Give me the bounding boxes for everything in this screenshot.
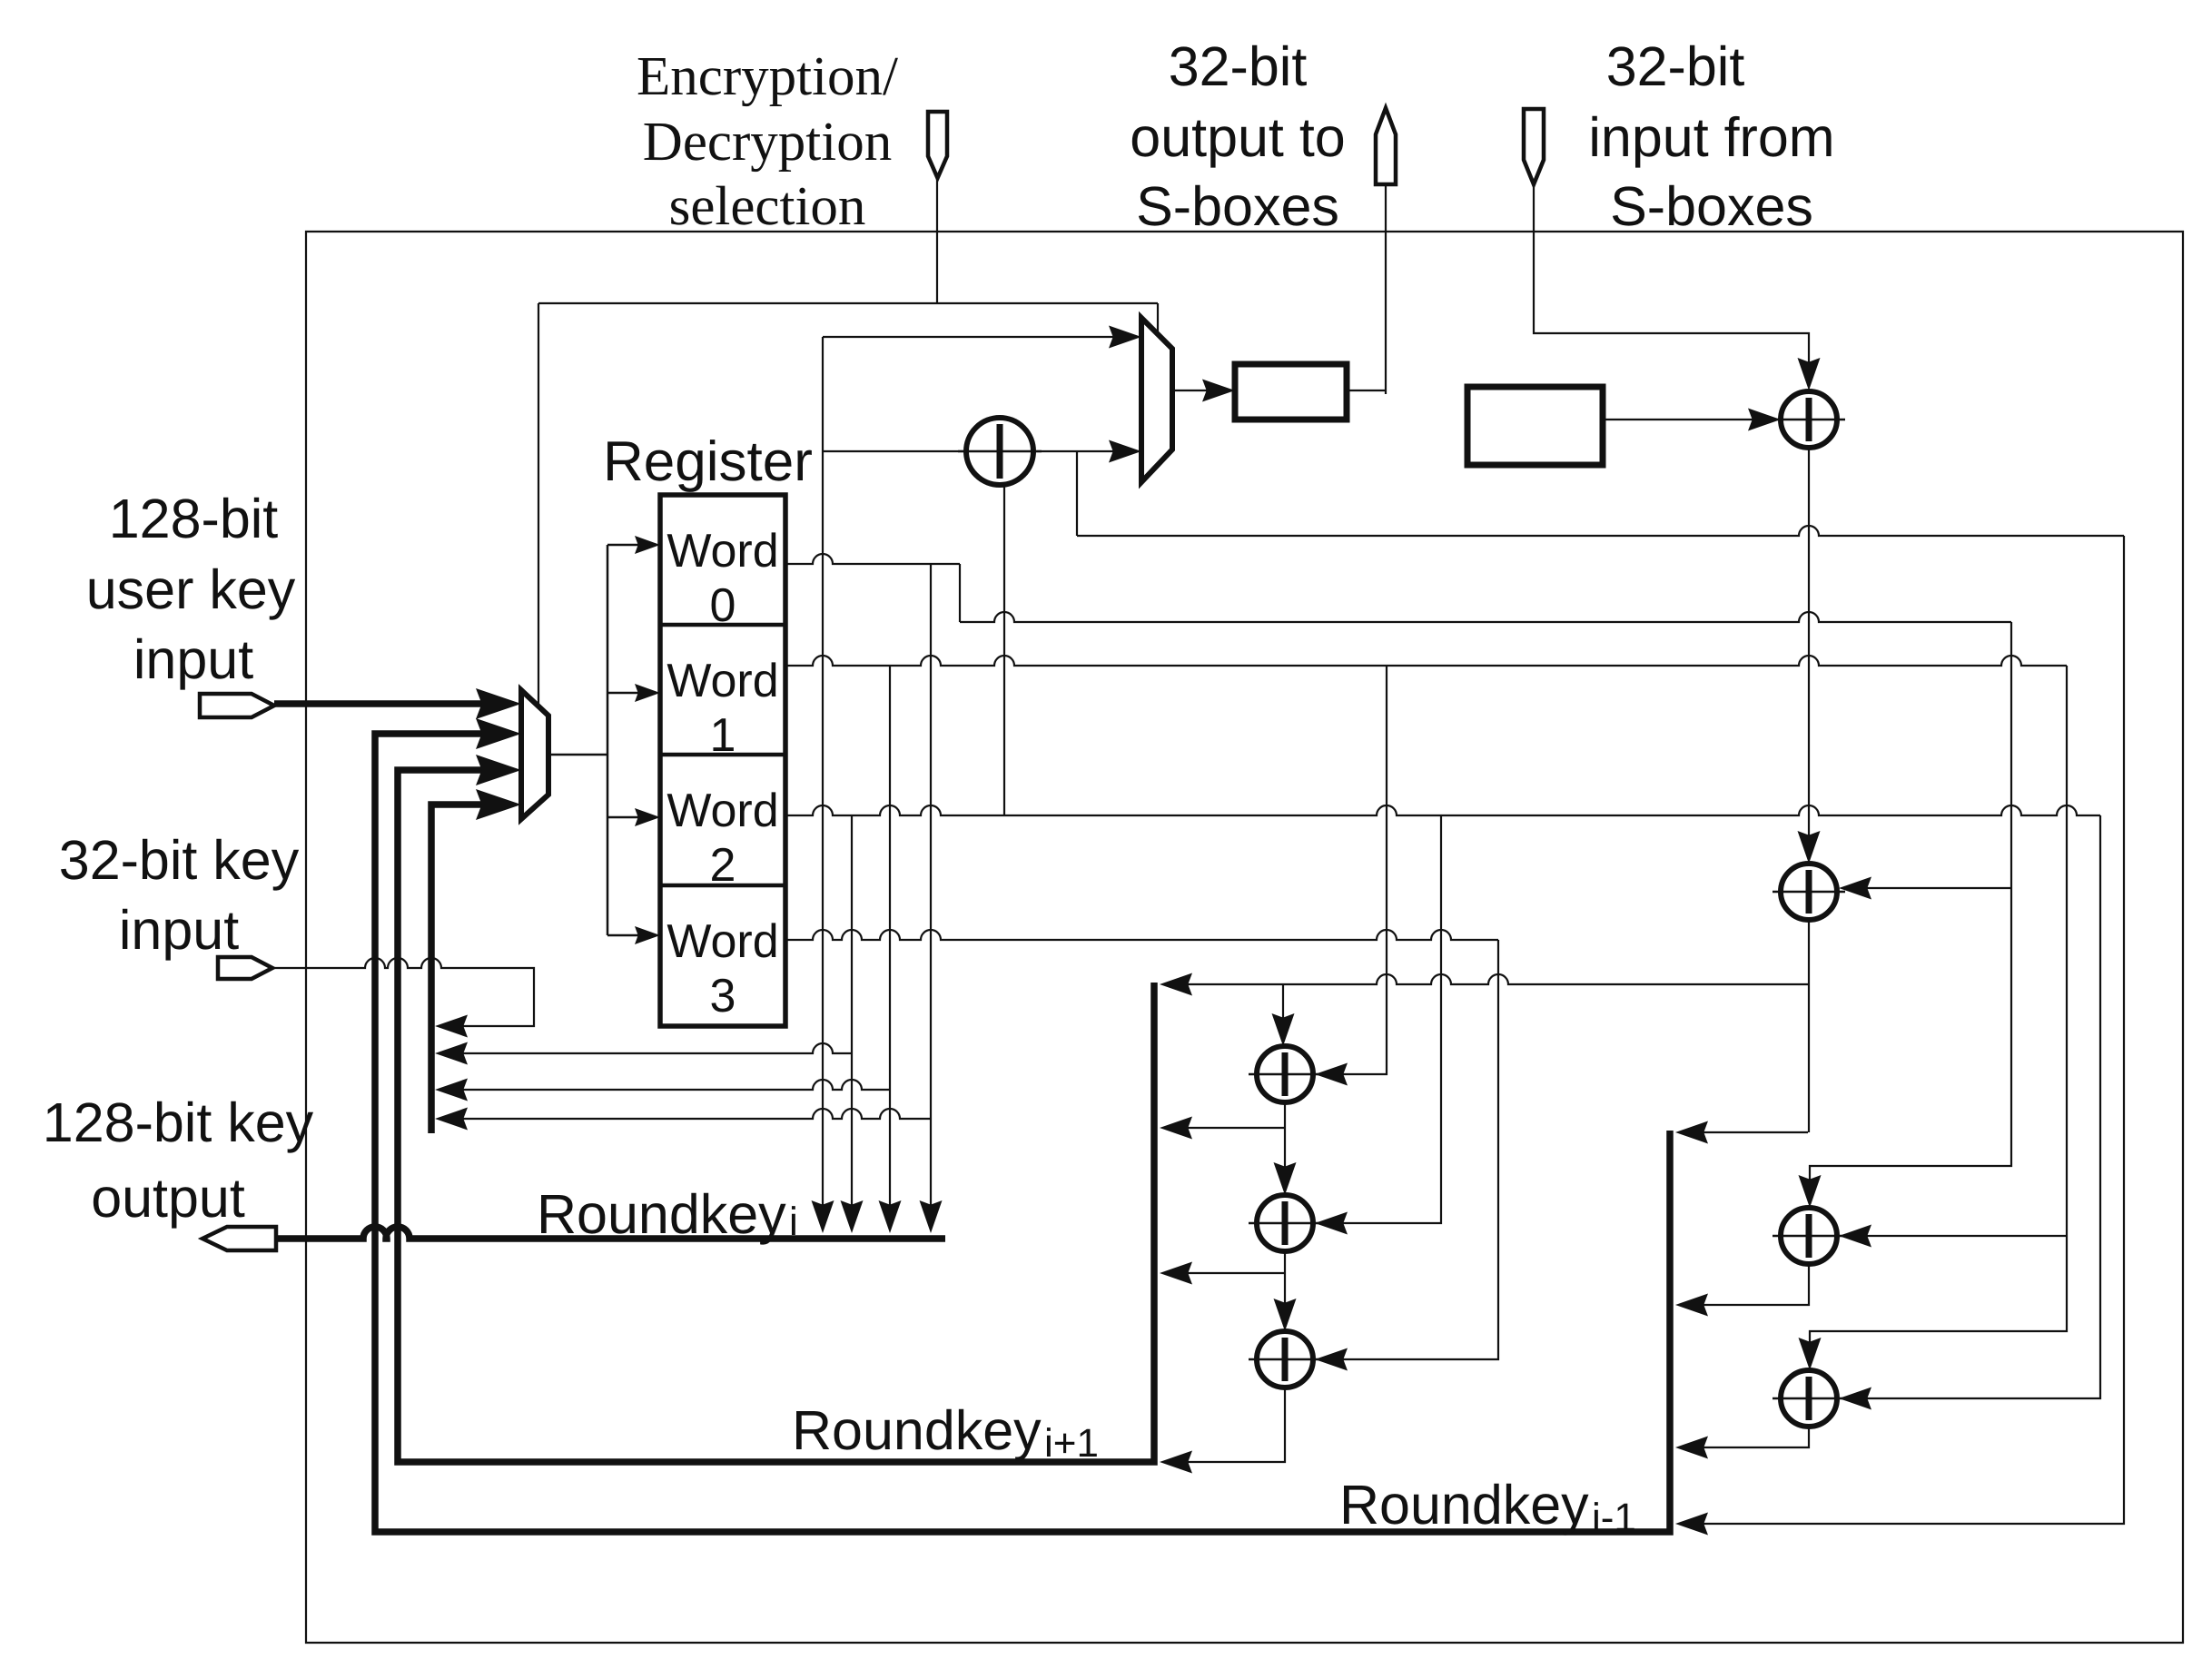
wire X3 tap y1084 line — [1167, 974, 1808, 984]
wire X1 bottom link to Word2 line — [1003, 485, 1005, 815]
svg-text:Word: Word — [667, 525, 778, 578]
svg-text:128-bit: 128-bit — [109, 488, 279, 549]
wire tap y1232 — [442, 1109, 931, 1119]
wire X3 right input — [1846, 887, 2011, 889]
wire arrow tap1160 into bus — [435, 1042, 468, 1065]
svg-text:Word: Word — [667, 915, 778, 968]
register divider 2 — [660, 753, 785, 757]
wire U2 output — [548, 754, 607, 756]
svg-text:32-bit key: 32-bit key — [59, 829, 300, 891]
xor X2 — [1773, 391, 1845, 448]
wire arrow into X5m top — [1272, 1013, 1295, 1046]
wire arrow into X5m right — [1315, 1063, 1348, 1086]
pin KEYOUT (128-bit key output) — [202, 1227, 276, 1250]
wire arrow x938 to Roundkey_i — [841, 1200, 864, 1233]
wire arrow into X4 top — [1799, 1175, 1822, 1208]
wire Word0 long run y685 — [960, 612, 2011, 622]
wire arrow y1084 into bus i+1 — [1160, 973, 1192, 996]
pin SBOX-OUT (32-bit output to S-boxes) — [1376, 108, 1396, 184]
xor X4 — [1773, 1208, 1845, 1264]
wire x938 drop — [851, 815, 853, 1228]
label Encryption/Decryption selection — [637, 46, 898, 237]
svg-text:3: 3 — [710, 970, 736, 1022]
svg-text:Word: Word — [667, 785, 778, 837]
wire X3 tap left y1247 — [1683, 1131, 1808, 1133]
wire arrow U1-in2 — [1109, 440, 1141, 463]
wire register feed vertical — [607, 545, 609, 935]
wire arrow into X2 left — [1748, 409, 1781, 431]
wire B1 out to sbox-out pin — [1347, 390, 1386, 391]
svg-text:S-boxes: S-boxes — [1610, 175, 1813, 237]
svg-text:Encryption/: Encryption/ — [637, 46, 898, 107]
svg-text:selection: selection — [669, 176, 866, 237]
register divider 3 — [660, 884, 785, 888]
svg-text:output to: output to — [1130, 106, 1345, 168]
wire arrow U1-in1 — [1109, 326, 1141, 349]
xor X5m — [1249, 1046, 1321, 1102]
svg-text:input: input — [133, 628, 253, 690]
register box — [660, 495, 785, 1026]
wire x1025 drop — [930, 564, 932, 1228]
svg-text:128-bit key: 128-bit key — [43, 1091, 314, 1153]
wire ED select drop to mux U2 — [538, 303, 539, 707]
wire arrow tap1200 into bus — [435, 1079, 468, 1101]
wire x2339 drop to Roundkey_i-1 — [1683, 536, 2124, 1524]
wire tap y1200 — [442, 1080, 890, 1090]
wire arrow y1242 into bus i+1 — [1160, 1117, 1192, 1140]
wire arrow x980 to Roundkey_i — [879, 1200, 902, 1233]
xor X6 — [1249, 1195, 1321, 1251]
svg-text:32-bit: 32-bit — [1169, 35, 1308, 97]
pin ED (Encryption/Decryption selection) — [928, 112, 947, 178]
wire Word2 output run y898 — [785, 805, 2100, 815]
wire arrow U2-a3 — [476, 755, 521, 785]
wire feed Word0 — [607, 544, 638, 547]
wire arrow Word2 in — [635, 808, 660, 826]
mux U1 — [1141, 318, 1172, 482]
wire X1 left input — [823, 450, 967, 452]
wire node x906 vertical — [822, 337, 824, 1228]
register divider 1 — [660, 623, 785, 627]
wire arrow into X7 right — [1315, 1348, 1348, 1371]
wire ED select rail — [538, 302, 1158, 304]
label 128-bit key output — [43, 1091, 314, 1229]
wire arrow tap1232 into bus — [435, 1108, 468, 1131]
wire X4 output — [1683, 1264, 1809, 1305]
svg-text:Word: Word — [667, 655, 778, 707]
svg-text:Roundkey: Roundkey — [1339, 1474, 1589, 1536]
svg-text:output: output — [91, 1167, 245, 1229]
wire Word0 output run — [785, 554, 960, 564]
wire feed Word1 — [607, 692, 638, 695]
svg-text:Register: Register — [603, 430, 813, 493]
wire X3 output drop — [1808, 920, 1810, 1132]
pin USERKEY (128-bit user key input) — [200, 694, 274, 717]
label Roundkey i — [537, 1183, 798, 1245]
wire X6 tap y1402 — [1167, 1272, 1285, 1274]
wire arrow x1025 to Roundkey_i — [920, 1200, 943, 1233]
wire arrow x2339 into bus i-1 — [1675, 1513, 1708, 1536]
label Word 1 — [667, 655, 778, 762]
wire X1 out drop x1186 — [1076, 451, 1078, 536]
wire X7 output — [1167, 1388, 1285, 1462]
wire Word3 output run y1035 — [785, 930, 1498, 940]
wire arrow X5r-out into bus i-1 — [1675, 1437, 1708, 1459]
mux U2 — [521, 690, 548, 819]
wire X1 output to U1 — [1032, 450, 1132, 452]
wire X6 output — [1284, 1251, 1286, 1326]
svg-text:Decryption: Decryption — [643, 112, 892, 173]
xor X5r — [1773, 1370, 1845, 1427]
wire 32-bit key input run — [272, 958, 534, 1026]
label Register — [603, 430, 813, 493]
svg-text:i: i — [789, 1200, 798, 1244]
wire arrow U2-a1 — [476, 688, 521, 719]
box B2 — [1467, 387, 1603, 465]
wire arrow X7-out into bus i+1 — [1160, 1451, 1192, 1474]
label Word 0 — [667, 525, 778, 632]
wire X5r output — [1683, 1427, 1809, 1447]
wire B2 output — [1603, 419, 1773, 420]
bus Roundkey_i-1 loop (thick) — [375, 734, 1670, 1532]
wire X5m tap y1242 — [1167, 1127, 1285, 1129]
bus key assembly (thick) — [431, 805, 507, 1133]
label 32-bit output to S-boxes — [1130, 35, 1345, 237]
svg-text:Roundkey: Roundkey — [537, 1183, 786, 1245]
svg-text:input from: input from — [1588, 106, 1834, 168]
wire X5m right input — [1322, 666, 1387, 1074]
label Word 3 — [667, 915, 778, 1022]
xor X7 — [1249, 1331, 1321, 1388]
wire feed Word3 — [607, 934, 638, 937]
wire arrow into X6 right — [1315, 1212, 1348, 1235]
wire Word0 drop x1057 — [959, 564, 961, 622]
wire arrow into X7 top — [1274, 1299, 1297, 1331]
bus Roundkey_i (thick) — [275, 1227, 945, 1239]
svg-text:i-1: i-1 — [1592, 1496, 1636, 1540]
svg-text:1: 1 — [710, 709, 736, 762]
wire X4 right input — [1846, 1235, 2067, 1237]
label 32-bit key input — [59, 829, 300, 961]
wire arrow into X3 right — [1839, 877, 1871, 900]
svg-text:user key: user key — [86, 558, 296, 620]
wire arrow into X5r right — [1839, 1388, 1871, 1410]
wire arrow Word3 in — [635, 926, 660, 944]
label Roundkey i-1 — [1339, 1474, 1636, 1540]
wire X6 right input — [1322, 815, 1441, 1223]
xor X1 — [958, 418, 1042, 485]
wire ED pin stem — [936, 178, 938, 303]
wire arrow keyin into bus — [435, 1015, 468, 1038]
svg-text:32-bit: 32-bit — [1606, 35, 1745, 97]
wire X1-out long run y590 — [1077, 526, 2124, 536]
wire arrow into X4 right — [1839, 1225, 1871, 1248]
wire arrow into X6 top — [1274, 1162, 1297, 1195]
wire U1 output — [1172, 390, 1226, 391]
wire arrow into X3 top — [1798, 831, 1821, 864]
wire Word1 right drop x2276 — [1810, 666, 2067, 1365]
wire arrow x906 to Roundkey_i — [812, 1200, 834, 1233]
label Roundkey i+1 — [792, 1399, 1099, 1466]
pin SBOX-IN (32-bit input from S-boxes) — [1524, 109, 1544, 184]
wire X5m top feed — [1282, 984, 1284, 1041]
label 128-bit user key input — [86, 488, 296, 690]
bus Roundkey_i+1 loop (thick) — [398, 770, 1154, 1462]
svg-text:Roundkey: Roundkey — [792, 1399, 1042, 1461]
svg-text:2: 2 — [710, 839, 736, 892]
wire X2 to X3 — [1808, 448, 1810, 858]
wire Word1 output run y733 — [785, 656, 2067, 666]
wire arrow X4-out into bus i-1 — [1675, 1294, 1708, 1317]
label Word 2 — [667, 785, 778, 892]
wire sbox-out stem — [1385, 184, 1387, 394]
wire arrow U2-a4 — [476, 789, 521, 820]
svg-text:i+1: i+1 — [1044, 1421, 1099, 1466]
svg-text:input: input — [119, 899, 239, 961]
wire ED select drop to mux U1 — [1157, 303, 1159, 332]
wire Word3 drop x1650 — [1322, 940, 1498, 1359]
xor X3 — [1773, 864, 1845, 920]
wire U1 input1 (from node x906) — [823, 336, 1132, 338]
wire X5m output — [1284, 1102, 1286, 1190]
wire arrow y1402 into bus i+1 — [1160, 1262, 1192, 1285]
chip boundary — [306, 232, 2183, 1643]
wire x980 drop — [889, 666, 891, 1228]
wire arrow into X2 top — [1798, 358, 1821, 390]
wire user key input (thick) — [274, 700, 507, 707]
wire arrow Word0 in — [635, 536, 660, 554]
wire arrow U2-a2 — [476, 718, 521, 749]
wire arrow Word1 in — [635, 684, 660, 702]
wire arrow y1247 into bus i-1 — [1675, 1121, 1708, 1144]
wire tap y1160 — [442, 1043, 852, 1053]
wire arrow into B1 — [1202, 380, 1235, 402]
box B1 — [1235, 364, 1347, 420]
wire feed Word2 — [607, 816, 638, 819]
wire Word0 right drop x2215 — [1810, 622, 2011, 1202]
label 32-bit input from S-boxes — [1588, 35, 1834, 237]
wire arrow into X5r top — [1799, 1338, 1822, 1370]
svg-text:0: 0 — [710, 579, 736, 632]
pin KEYIN (32-bit key input) — [218, 957, 272, 979]
wire sbox-in feed — [1534, 184, 1809, 384]
wire Word2 right drop x2313 — [1846, 815, 2100, 1398]
svg-text:S-boxes: S-boxes — [1136, 175, 1339, 237]
